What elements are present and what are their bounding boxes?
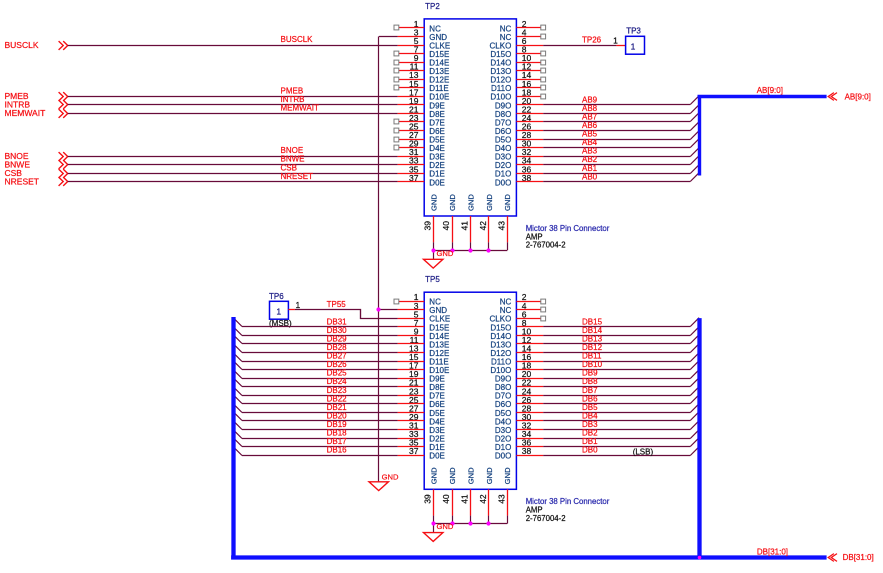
wire GND tie below TP5 [434, 516, 508, 533]
value label AMP (TP2) [526, 232, 543, 241]
wire AB0 [543, 173, 699, 182]
label GND below TP2 [437, 249, 454, 258]
TP5 pin 11 (D13E) [398, 335, 450, 349]
wire DB24 [233, 378, 397, 387]
svg-text:GND: GND [503, 194, 512, 211]
connector TP5 (Mictor 38 pin) outline [424, 292, 516, 489]
TP2 pin 7 (D15E) [394, 45, 449, 59]
wire PMEB [68, 96, 398, 98]
wire DB30 [233, 327, 397, 336]
svg-text:43: 43 [496, 221, 506, 231]
testpoint TP6 [270, 301, 289, 319]
TP5 pin 1 (NC) [394, 292, 441, 306]
TP2 pin 12 (D13O) [490, 62, 545, 76]
TP5 pin 40 (GND) bottom [441, 467, 457, 516]
svg-text:D0E: D0E [429, 178, 445, 187]
label TP2 [425, 2, 440, 11]
label TP5 [425, 275, 440, 284]
TP2 pin 41 (GND) bottom [459, 194, 475, 243]
TP2 pin 17 (D10E) [398, 87, 450, 101]
wire AB9 [543, 96, 699, 105]
ground symbol GND net [369, 482, 388, 491]
svg-text:DB0: DB0 [582, 446, 598, 455]
svg-text:D0O: D0O [495, 178, 511, 187]
svg-text:2-767004-2: 2-767004-2 [526, 241, 566, 250]
label (LSB) [633, 448, 654, 457]
wire DB28 [233, 344, 397, 353]
svg-text:41: 41 [459, 494, 469, 504]
TP2 pin 38 (D0O) [495, 173, 543, 187]
net label DB29 [327, 335, 348, 344]
svg-text:41: 41 [459, 221, 469, 231]
net label INTRB [281, 95, 305, 104]
bus DB right (DB15..DB0) [697, 318, 701, 557]
net label DB26 [327, 360, 348, 369]
TP5 pin 35 (D1E) [398, 438, 445, 452]
svg-text:NRESET: NRESET [5, 177, 39, 187]
testpoint TP3 pin 1 stub [613, 35, 626, 45]
port AB[9:0] (right edge) [828, 93, 871, 102]
TP5 pin 34 (D2O) [495, 429, 543, 443]
TP5 pin 26 (D6O) [495, 395, 543, 409]
net label CSB [281, 163, 297, 172]
wire DB21 [233, 404, 397, 413]
TP5 pin 4 (NC) [500, 301, 546, 315]
svg-text:TP26: TP26 [582, 36, 602, 45]
wire DB11 [543, 353, 699, 362]
net label BNOE [281, 146, 304, 155]
net label DB21 [327, 403, 348, 412]
net label DB22 [327, 394, 348, 403]
svg-text:GND: GND [429, 467, 438, 484]
svg-text:43: 43 [496, 494, 506, 504]
TP5 pin 41 (GND) bottom [459, 467, 475, 516]
wire GND net vertical [379, 37, 398, 482]
svg-text:BUSCLK: BUSCLK [281, 35, 314, 44]
TP2 pin 24 (D7O) [495, 113, 543, 127]
svg-text:NRESET: NRESET [281, 172, 314, 181]
net label BNWE [281, 155, 305, 164]
TP5 pin 30 (D4O) [495, 412, 543, 426]
TP2 pin 18 (D10O) [490, 87, 545, 101]
junction pin 42 TP2 [486, 248, 490, 252]
port NRESET (left edge) [5, 177, 68, 187]
TP5 pin 17 (D10E) [398, 361, 450, 375]
net label DB14 [582, 326, 603, 335]
junction pin 41 TP2 [468, 248, 472, 252]
port BUSCLK (left edge) [5, 40, 68, 50]
TP5 pin 13 (D12E) [398, 344, 450, 358]
TP5 pin 18 (D10O) [490, 361, 543, 375]
net label AB7 [582, 113, 598, 122]
net label TP26 [582, 36, 602, 45]
svg-text:1: 1 [613, 35, 618, 45]
TP2 pin 6 (CLKO) [490, 36, 544, 50]
net label AB2 [582, 155, 598, 164]
TP2 pin 34 (D2O) [495, 156, 543, 170]
TP5 pin 42 (GND) bottom [478, 467, 494, 516]
TP2 pin 31 (D3E) [398, 147, 445, 161]
net label DB24 [327, 377, 348, 386]
wire CSB [68, 173, 398, 175]
net label DB31 [327, 317, 348, 326]
net label AB1 [582, 164, 598, 173]
TP5 pin 25 (D6E) [398, 395, 445, 409]
net label MEMWAIT [281, 103, 319, 112]
net label DB30 [327, 326, 348, 335]
net label AB3 [582, 147, 598, 156]
junction pin 41 TP5 [468, 521, 472, 525]
svg-text:38: 38 [522, 446, 532, 456]
net label DB7 [582, 386, 598, 395]
svg-text:GND: GND [485, 467, 494, 484]
svg-text:40: 40 [441, 494, 451, 504]
TP2 pin 39 (GND) bottom [423, 194, 439, 243]
bus AB[9:0] [698, 95, 827, 175]
TP2 pin 25 (D6E) [394, 122, 445, 136]
TP2 pin 28 (D5O) [495, 130, 543, 144]
wire INTRB [68, 104, 398, 106]
wire NRESET [68, 181, 398, 183]
wire BUSCLK [68, 45, 398, 47]
svg-text:AB0: AB0 [582, 172, 598, 181]
net label AB8 [582, 104, 598, 113]
net label DB19 [327, 420, 348, 429]
TP2 pin 30 (D4O) [495, 139, 543, 153]
TP5 pin 36 (D1O) [495, 438, 543, 452]
TP2 pin 11 (D13E) [394, 62, 449, 76]
wire AB3 [543, 148, 699, 157]
value label Mictor 38 Pin Connector (TP2) [526, 224, 610, 233]
svg-text:GND: GND [448, 194, 457, 211]
wire DB0 [543, 447, 699, 456]
bus label AB[9:0] [757, 86, 783, 95]
TP5 pin 23 (D7E) [398, 386, 445, 400]
TP2 pin 15 (D11E) [394, 79, 449, 93]
TP2 pin 27 (D5E) [394, 130, 445, 144]
port CSB (left edge) [5, 168, 68, 178]
wire DB7 [543, 387, 699, 396]
connector TP2 (Mictor 38 pin) outline [424, 19, 516, 216]
net label PMEB [281, 86, 304, 95]
TP5 pin 37 (D0E) [398, 446, 445, 460]
net label DB9 [582, 369, 598, 378]
wire AB5 [543, 131, 699, 140]
TP5 pin 19 (D9E) [398, 369, 445, 383]
TP2 pin 3 (GND) [398, 28, 448, 42]
TP5 pin 9 (D14E) [398, 326, 450, 340]
ground symbol below TP5 [424, 533, 443, 542]
TP2 pin 19 (D9E) [398, 96, 445, 110]
bus DB[31:0] horizontal [231, 555, 827, 559]
svg-text:42: 42 [478, 221, 488, 231]
label GND net [382, 473, 399, 482]
TP2 pin 29 (D4E) [394, 139, 445, 153]
wire DB26 [233, 361, 397, 370]
net label AB5 [582, 130, 598, 139]
TP2 pin 1 (NC) [394, 19, 441, 33]
TP5 pin 8 (D15O) [490, 318, 543, 332]
TP5 pin 28 (D5O) [495, 403, 543, 417]
net label DB25 [327, 369, 348, 378]
TP5 pin 38 (D0O) [495, 446, 543, 460]
svg-text:TP3: TP3 [626, 27, 641, 36]
svg-text:GND: GND [429, 194, 438, 211]
port DB[31:0] (right edge) [828, 553, 874, 562]
junction pin 40 TP5 [450, 521, 454, 525]
wire MEMWAIT [68, 113, 398, 115]
port MEMWAIT (left edge) [5, 108, 68, 118]
wire DB1 [543, 438, 699, 447]
TP2 pin 23 (D7E) [394, 113, 445, 127]
port BNOE (left edge) [5, 151, 68, 161]
wire AB1 [543, 165, 699, 174]
net label DB18 [327, 429, 348, 438]
net label AB4 [582, 138, 598, 147]
TP2 pin 13 (D12E) [394, 70, 449, 84]
svg-text:TP5: TP5 [425, 275, 440, 284]
junction pin 39 TP2 [431, 248, 435, 252]
junction pin 40 TP2 [450, 248, 454, 252]
svg-text:GND: GND [485, 194, 494, 211]
svg-text:39: 39 [423, 494, 433, 504]
wire AB8 [543, 105, 699, 114]
svg-text:GND: GND [466, 194, 475, 211]
wire DB8 [543, 378, 699, 387]
wire DB13 [543, 335, 699, 344]
svg-text:TP6: TP6 [269, 292, 284, 301]
port BNWE (left edge) [5, 160, 68, 170]
wire DB18 [233, 430, 397, 439]
junction pin 39 TP5 [431, 521, 435, 525]
wire GND tie below TP2 [434, 242, 508, 259]
svg-text:TP55: TP55 [327, 300, 347, 309]
TP5 pin 43 (GND) bottom [496, 467, 512, 516]
svg-text:GND: GND [448, 467, 457, 484]
testpoint TP3 [626, 36, 645, 54]
bus DB left (DB31..DB16) [231, 317, 235, 559]
wire DB9 [543, 370, 699, 379]
wire DB22 [233, 395, 397, 404]
TP2 pin 21 (D8E) [398, 104, 445, 118]
net label DB3 [582, 420, 598, 429]
label TP3 [626, 27, 641, 36]
svg-text:1: 1 [631, 42, 636, 52]
net label DB13 [582, 335, 603, 344]
TP5 pin 32 (D3O) [495, 421, 543, 435]
svg-text:40: 40 [441, 221, 451, 231]
wire TP55 [295, 310, 398, 319]
svg-text:1: 1 [276, 307, 281, 317]
net label DB10 [582, 360, 603, 369]
net label DB1 [582, 437, 598, 446]
net label DB28 [327, 343, 348, 352]
wire DB5 [543, 404, 699, 413]
TP5 pin 15 (D11E) [398, 352, 449, 366]
svg-text:GND: GND [437, 249, 454, 258]
port PMEB (left edge) [5, 91, 68, 101]
TP5 pin 29 (D4E) [398, 412, 445, 426]
wire DB29 [233, 335, 397, 344]
ground symbol below TP2 [424, 259, 443, 268]
svg-text:2-767004-2: 2-767004-2 [526, 514, 566, 523]
TP2 pin 42 (GND) bottom [478, 194, 494, 243]
svg-text:37: 37 [409, 446, 419, 456]
net label DB17 [327, 437, 348, 446]
wire DB3 [543, 421, 699, 430]
svg-text:GND: GND [382, 473, 399, 482]
net label DB16 [327, 446, 348, 455]
junction pin 42 TP5 [486, 521, 490, 525]
net label BUSCLK [281, 35, 314, 44]
net label DB20 [327, 411, 348, 420]
value label 2-767004-2 (TP5) [526, 514, 566, 523]
TP2 pin 16 (D11O) [491, 79, 546, 93]
net label AB0 [582, 172, 598, 181]
TP5 pin 16 (D11O) [491, 352, 543, 366]
testpoint TP6 pin 1 stub [288, 300, 300, 310]
svg-text:GND: GND [466, 467, 475, 484]
net label DB12 [582, 343, 603, 352]
net label DB0 [582, 446, 598, 455]
TP5 pin 27 (D5E) [398, 403, 445, 417]
net label DB6 [582, 394, 598, 403]
svg-text:MEMWAIT: MEMWAIT [5, 108, 46, 118]
wire DB20 [233, 412, 397, 421]
TP2 pin 37 (D0E) [398, 173, 445, 187]
value label Mictor 38 Pin Connector (TP5) [526, 497, 610, 506]
svg-text:GND: GND [437, 522, 454, 531]
wire AB2 [543, 156, 699, 165]
junction GND / TP5 pin 3 [376, 307, 380, 311]
net label DB5 [582, 403, 598, 412]
TP2 pin 5 (CLKE) [398, 36, 451, 50]
TP2 pin 4 (NC) [500, 28, 546, 42]
svg-text:DB16: DB16 [327, 446, 348, 455]
wire DB6 [543, 395, 699, 404]
junction bus DB [698, 556, 702, 560]
net label DB15 [582, 317, 603, 326]
bus label DB[31:0] [757, 547, 788, 556]
svg-text:D0E: D0E [429, 452, 445, 461]
TP2 pin 35 (D1E) [398, 164, 445, 178]
wire DB14 [543, 327, 699, 336]
TP2 pin 22 (D8O) [495, 104, 543, 118]
TP5 pin 10 (D14O) [490, 326, 543, 340]
TP2 pin 9 (D14E) [394, 53, 449, 67]
wire DB12 [543, 344, 699, 353]
wire DB4 [543, 412, 699, 421]
net label TP55 [327, 300, 347, 309]
TP2 pin 40 (GND) bottom [441, 194, 457, 243]
TP5 pin 22 (D8O) [495, 378, 543, 392]
port INTRB (left edge) [5, 100, 68, 110]
TP5 pin 14 (D12O) [490, 344, 543, 358]
TP5 pin 2 (NC) [500, 292, 546, 306]
wire DB15 [543, 318, 699, 327]
TP5 pin 3 (GND) [398, 301, 448, 315]
TP5 pin 5 (CLKE) [398, 309, 451, 323]
svg-text:TP2: TP2 [425, 2, 440, 11]
TP2 pin 32 (D3O) [495, 147, 543, 161]
wire GND to TP5 pin 3 [379, 309, 398, 311]
svg-text:1: 1 [296, 300, 301, 310]
TP2 pin 10 (D14O) [490, 53, 545, 67]
net label DB27 [327, 352, 348, 361]
wire DB17 [233, 438, 397, 447]
TP5 pin 31 (D3E) [398, 421, 445, 435]
TP5 pin 7 (D15E) [398, 318, 450, 332]
net label NRESET [281, 172, 314, 181]
value label AMP (TP5) [526, 506, 543, 515]
TP5 pin 12 (D13O) [490, 335, 543, 349]
TP2 pin 43 (GND) bottom [496, 194, 512, 243]
TP2 pin 20 (D9O) [495, 96, 543, 110]
wire AB7 [543, 113, 699, 122]
TP5 pin 20 (D9O) [495, 369, 543, 383]
wire AB6 [543, 122, 699, 131]
wire DB31 [233, 318, 397, 327]
value label 2-767004-2 (TP2) [526, 241, 566, 250]
wire DB19 [233, 421, 397, 430]
wire DB25 [233, 370, 397, 379]
TP2 pin 2 (NC) [500, 19, 546, 33]
svg-text:AB[9:0]: AB[9:0] [757, 86, 783, 95]
TP5 pin 24 (D7O) [495, 386, 543, 400]
wire DB2 [543, 430, 699, 439]
net label DB23 [327, 386, 348, 395]
TP5 pin 6 (CLKO) [490, 309, 546, 323]
TP2 pin 14 (D12O) [490, 70, 545, 84]
wire TP26 [543, 45, 616, 47]
wire DB16 [233, 447, 397, 456]
svg-text:AB[9:0]: AB[9:0] [845, 93, 871, 102]
wire DB10 [543, 361, 699, 370]
wire BNOE [68, 156, 398, 158]
label (MSB) [269, 319, 292, 328]
TP2 pin 33 (D2E) [398, 156, 445, 170]
svg-text:DB[31:0]: DB[31:0] [757, 547, 788, 556]
svg-text:MEMWAIT: MEMWAIT [281, 103, 319, 112]
TP2 pin 8 (D15O) [490, 45, 545, 59]
wire DB27 [233, 353, 397, 362]
TP2 pin 36 (D1O) [495, 164, 543, 178]
label TP6 [269, 292, 284, 301]
wire AB4 [543, 139, 699, 148]
svg-text:DB[31:0]: DB[31:0] [843, 553, 874, 562]
net label AB9 [582, 95, 598, 104]
label GND below TP5 [437, 522, 454, 531]
svg-text:BUSCLK: BUSCLK [5, 40, 39, 50]
svg-text:39: 39 [423, 221, 433, 231]
TP5 pin 21 (D8E) [398, 378, 445, 392]
svg-text:D0O: D0O [495, 452, 511, 461]
svg-text:GND: GND [503, 467, 512, 484]
TP2 pin 26 (D6O) [495, 122, 543, 136]
net label DB2 [582, 429, 598, 438]
TP5 pin 33 (D2E) [398, 429, 445, 443]
wire BNWE [68, 164, 398, 166]
TP5 pin 39 (GND) bottom [423, 467, 439, 516]
net label DB4 [582, 411, 598, 420]
svg-text:42: 42 [478, 494, 488, 504]
svg-text:(LSB): (LSB) [633, 448, 654, 457]
net label DB11 [582, 352, 602, 361]
net label AB6 [582, 121, 598, 130]
net label DB8 [582, 377, 598, 386]
wire DB23 [233, 387, 397, 396]
